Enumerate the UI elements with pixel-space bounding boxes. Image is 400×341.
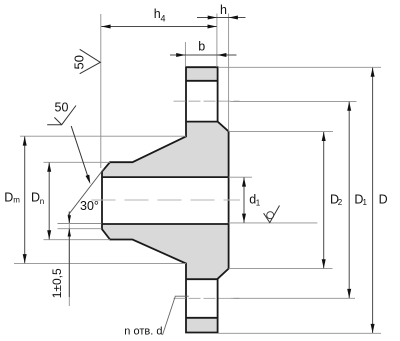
svg-text:D: D: [31, 191, 40, 205]
svg-text:1±0,5: 1±0,5: [50, 268, 64, 298]
svg-text:n отв. d: n отв. d: [124, 326, 162, 338]
svg-text:50: 50: [55, 101, 69, 115]
svg-text:4: 4: [161, 14, 166, 24]
svg-text:2: 2: [338, 198, 343, 207]
svg-text:m: m: [13, 195, 20, 204]
svg-text:h: h: [220, 3, 227, 17]
svg-text:D: D: [4, 190, 13, 204]
svg-text:1: 1: [256, 198, 261, 207]
svg-text:b: b: [198, 40, 205, 54]
svg-text:50: 50: [71, 55, 86, 69]
svg-text:D: D: [379, 192, 388, 206]
svg-text:n: n: [40, 197, 44, 206]
svg-text:1: 1: [363, 198, 368, 207]
svg-text:30°: 30°: [80, 199, 99, 213]
